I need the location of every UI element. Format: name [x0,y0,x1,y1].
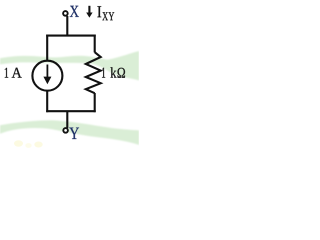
label X (node) [70,6,79,17]
decorative green swoosh band (lower) [0,120,139,145]
wire: stub to node X [66,16,68,36]
label I of I_XY [97,6,101,17]
decorative green swoosh band (upper) [0,51,139,81]
current arrow IXY at top [88,6,90,14]
label k of 1 kOhm [111,67,117,77]
label A of 1 A [12,68,22,78]
wire: left branch lower [46,90,48,112]
wire: left branch upper [46,35,48,61]
wire: right branch upper [94,35,96,53]
label Y (node) [69,128,79,139]
wire: right branch lower [94,93,96,112]
label subscript X of I_XY [102,12,108,20]
resistor R1 (1 kOhm zigzag) [86,52,101,93]
label Ohm of 1 kOhm [118,68,126,78]
terminal node X (open circle) [63,11,68,16]
wire: bottom rail [46,110,95,112]
wire: top rail [46,35,95,37]
wire: stub to node Y [66,111,68,128]
terminal node Y (open circle) [63,128,68,133]
faint yellow smudges bottom-left [14,140,23,146]
label subscript Y of I_XY [109,12,115,20]
label 1 of 1 A [5,68,8,78]
label 1 of 1 kOhm [102,68,105,78]
current source I1 (1 A, arrow down) [32,61,62,91]
